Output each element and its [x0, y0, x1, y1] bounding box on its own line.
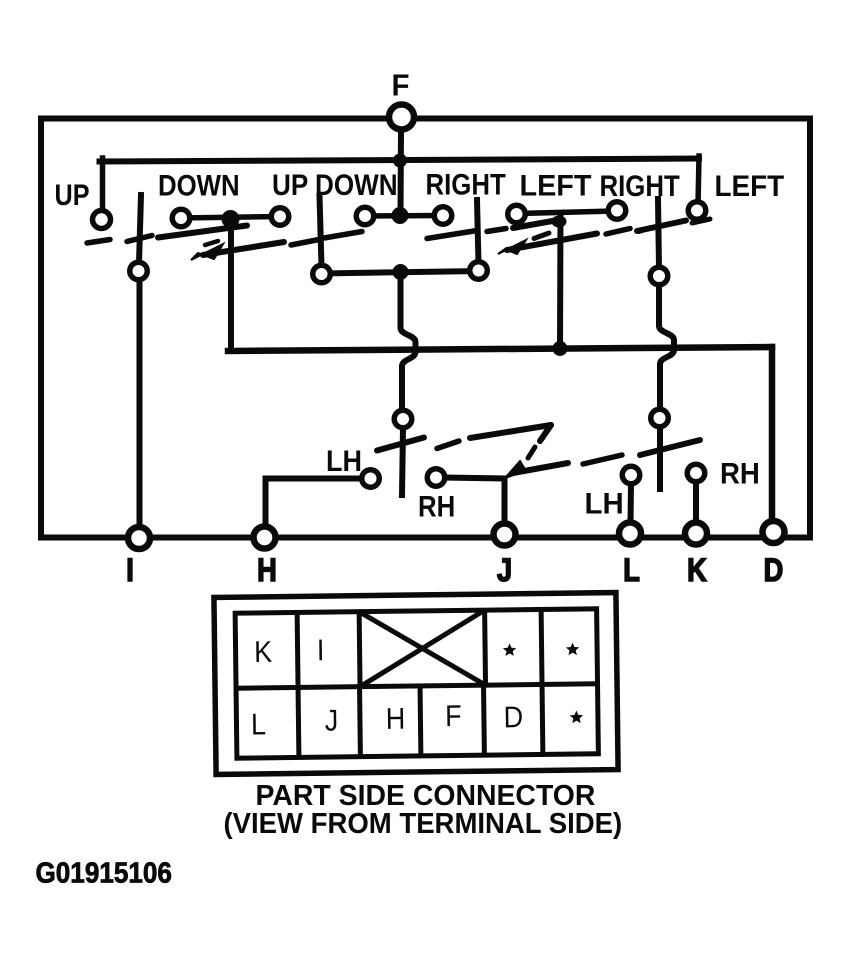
connector top row divider 3	[482, 610, 488, 685]
connector star 1	[503, 643, 517, 656]
svg-text:DOWN: DOWN	[158, 169, 240, 202]
connector X diagonal 2	[359, 610, 485, 687]
arm B small dash	[534, 233, 549, 239]
node: F at bus	[393, 154, 407, 168]
wire: pole from LEFT-RIGHT row down to main horizontal	[557, 213, 564, 349]
contact LH2	[622, 466, 640, 484]
svg-text:H: H	[385, 702, 405, 736]
arm B stroke crossing RIGHT2 pole	[637, 221, 686, 232]
junction dots	[222, 154, 568, 357]
terminal F	[389, 105, 414, 130]
wire: pole from DOWN row down to main horizontal	[228, 218, 234, 352]
contact UP	[93, 211, 111, 229]
wire: main lower horizontal	[228, 347, 772, 351]
contact RH2	[687, 464, 705, 482]
contact RIGHT row	[608, 202, 626, 220]
contact UPDOWN right	[434, 207, 452, 225]
outer schematic border	[41, 119, 810, 538]
svg-text:L: L	[251, 708, 266, 742]
wire: lower contact row horizontal	[322, 271, 479, 274]
contact RIGHT2 upper	[650, 267, 668, 285]
svg-text:I: I	[317, 634, 325, 668]
wire: RH contact to terminal J	[444, 478, 505, 525]
node: lower contact row center	[393, 264, 409, 280]
arm A dash below UP	[87, 240, 110, 244]
wire: bus right drop to LEFT contact	[698, 156, 699, 205]
arm A dash	[324, 232, 362, 239]
wire: I-line vertical to terminal I	[137, 280, 143, 528]
terminal D	[763, 521, 785, 543]
connector bottom row divider 1	[296, 687, 302, 757]
node: DOWN row pole	[222, 210, 240, 228]
svg-text:RIGHT: RIGHT	[426, 168, 506, 201]
svg-text:RH: RH	[418, 490, 455, 523]
svg-text:LH: LH	[326, 445, 362, 479]
terminal J	[494, 524, 516, 546]
svg-text:LEFT: LEFT	[715, 170, 785, 203]
svg-text:I: I	[126, 553, 134, 589]
arm A small dash	[205, 241, 218, 245]
wire: LH contact to terminal H	[266, 479, 363, 527]
connector star 2	[566, 643, 580, 656]
wire: DOWN row horizontal	[181, 217, 280, 219]
switch pole UP DOWN	[320, 196, 322, 266]
svg-text:J: J	[497, 553, 512, 589]
arm B arrow shaft	[507, 234, 597, 251]
switch pole below center hop	[402, 428, 403, 495]
connector inner box	[235, 609, 598, 758]
connector star 3	[570, 710, 584, 723]
arm B dash	[606, 229, 630, 235]
connector top row divider 1	[295, 612, 301, 687]
arm C stroke crossing center lower pole	[377, 438, 424, 451]
arm C bend stroke	[540, 425, 551, 441]
arm A arrow shaft	[203, 242, 284, 255]
connector top row divider 4	[539, 609, 545, 684]
svg-text:LEFT: LEFT	[520, 169, 592, 203]
arm B arrowhead	[498, 240, 526, 254]
connector bottom row divider 5	[540, 684, 546, 754]
svg-text:UP: UP	[55, 178, 90, 212]
node: main horizontal / pole 561	[553, 341, 568, 356]
wire: right vertical to terminal D	[769, 347, 776, 524]
wire: top bus horizontal	[100, 159, 700, 162]
arm A long stroke	[158, 226, 247, 238]
svg-text:F: F	[445, 700, 462, 734]
arm B end dash	[692, 219, 710, 223]
svg-text:G01915106: G01915106	[36, 856, 172, 889]
contact on I line	[130, 262, 148, 280]
wire: F vertical	[398, 128, 405, 218]
svg-text:K: K	[254, 635, 272, 669]
svg-text:D: D	[764, 553, 784, 589]
node: F at UPDOWN row	[392, 207, 409, 224]
connector bottom row divider 4	[481, 685, 487, 755]
connector outer box	[214, 593, 618, 775]
switch pole below right hop	[657, 427, 663, 489]
svg-text:L: L	[623, 553, 640, 589]
switch pole above I-line circle	[139, 195, 141, 263]
wire: RH2 contact to terminal K	[693, 481, 699, 523]
svg-text:K: K	[687, 553, 707, 589]
arm B dash 2	[639, 228, 651, 232]
connector row divider	[236, 684, 597, 688]
terminal H	[254, 527, 276, 549]
svg-text:(VIEW FROM TERMINAL SIDE): (VIEW FROM TERMINAL SIDE)	[224, 806, 623, 839]
connector X diagonal 1	[359, 610, 485, 687]
contact RH	[427, 469, 445, 487]
arm A arrowhead	[191, 244, 223, 260]
contact UPDOWN left	[356, 207, 374, 225]
contact RIGHT2 pole lower	[651, 409, 669, 427]
switch linkage dashed arms	[87, 219, 710, 478]
contact RIGHT lower	[470, 262, 488, 280]
arm A dash crossing I pole	[127, 236, 152, 242]
svg-text:RH: RH	[720, 457, 760, 490]
node: LEFT-RIGHT row pole top	[552, 216, 567, 228]
contact circles	[93, 105, 785, 550]
svg-text:H: H	[257, 553, 277, 589]
arm C long top stroke	[470, 425, 551, 438]
contact UPDOWN lower	[313, 265, 331, 283]
svg-text:UP DOWN: UP DOWN	[272, 168, 398, 201]
arm C stroke crossing RIGHT2 lower pole	[640, 440, 700, 455]
terminal K	[685, 523, 707, 545]
wire: bus left drop to UP contact	[100, 158, 106, 212]
arm C arrowhead	[505, 461, 526, 478]
arm C small dash	[528, 447, 535, 458]
arm C dash	[437, 441, 459, 449]
contact DOWN right	[271, 208, 289, 226]
contact DOWN left	[172, 209, 190, 227]
wire: UP DOWN row horizontal	[365, 213, 443, 219]
svg-text:D: D	[503, 701, 523, 735]
switch pole RIGHT2	[658, 199, 659, 268]
contact LH	[362, 470, 380, 488]
wire: LH2 contact to terminal L	[628, 483, 635, 523]
arm A dash crossing UPDOWN pole	[291, 240, 319, 246]
terminal L	[619, 523, 641, 545]
contact LEFT row	[508, 205, 526, 223]
connector bottom row divider 2	[357, 687, 363, 757]
arm C dash	[583, 455, 622, 464]
wire: right crossover hop	[659, 285, 674, 409]
svg-text:J: J	[325, 704, 339, 738]
connector top row divider 2	[357, 612, 363, 687]
wire: LEFT RIGHT row horizontal	[517, 211, 617, 214]
arm C lower shaft	[513, 463, 568, 473]
arm A dash crossing RIGHT pole	[427, 231, 477, 239]
connector bottom row divider 3	[418, 686, 424, 756]
svg-text:RIGHT: RIGHT	[600, 169, 680, 202]
contact LEFT outer	[688, 202, 706, 220]
contact center pole lower	[394, 410, 412, 428]
connector block	[214, 593, 618, 775]
wire: center crossover hop	[401, 278, 416, 411]
arm A dash	[487, 229, 506, 232]
switch pole RIGHT	[477, 200, 479, 263]
svg-text:F: F	[392, 69, 410, 103]
arm B stroke below LEFT contact	[513, 220, 561, 229]
svg-text:LH: LH	[585, 487, 624, 520]
terminal I	[128, 527, 150, 549]
